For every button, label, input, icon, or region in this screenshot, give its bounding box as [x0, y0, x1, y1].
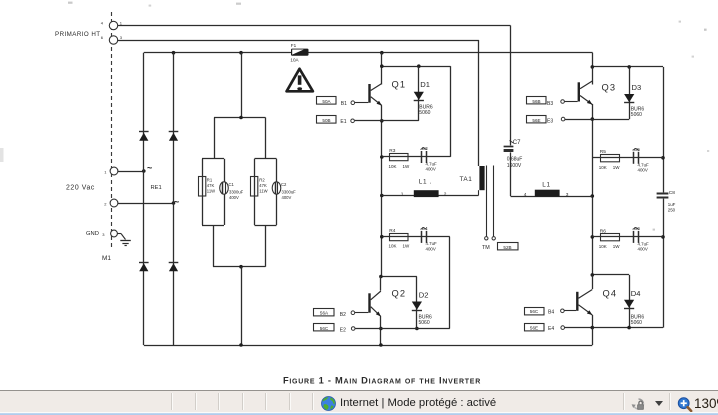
- svg-text:6: 6: [101, 35, 104, 40]
- svg-text:Q4: Q4: [603, 289, 618, 299]
- svg-text:400V: 400V: [426, 167, 436, 172]
- svg-text:400V: 400V: [638, 168, 648, 173]
- svg-text:1: 1: [104, 170, 107, 175]
- svg-text:3300uF: 3300uF: [282, 190, 297, 195]
- svg-text:50A: 50A: [322, 99, 331, 104]
- svg-text:56C: 56C: [530, 309, 539, 314]
- svg-text:E1: E1: [340, 119, 346, 125]
- svg-text:PRIMARIO HT: PRIMARIO HT: [55, 31, 101, 38]
- svg-text:R3: R3: [389, 148, 395, 154]
- svg-text:D4: D4: [631, 289, 641, 298]
- svg-text:L1 .: L1 .: [419, 179, 432, 186]
- svg-text:C3: C3: [422, 146, 428, 152]
- svg-text:4.7uF: 4.7uF: [426, 241, 438, 246]
- svg-text:Q3: Q3: [602, 83, 617, 93]
- svg-text:400V: 400V: [426, 247, 436, 252]
- svg-text:R1: R1: [207, 178, 213, 183]
- svg-text:52B: 52B: [503, 245, 511, 250]
- svg-text:3300uF: 3300uF: [229, 190, 244, 195]
- svg-text:E2: E2: [340, 328, 346, 334]
- svg-text:10A: 10A: [290, 57, 299, 62]
- svg-text:1W: 1W: [613, 244, 621, 249]
- svg-text:C2: C2: [281, 182, 287, 187]
- svg-text:1: 1: [401, 191, 404, 197]
- svg-text:10K: 10K: [389, 244, 397, 249]
- svg-text:C7: C7: [513, 140, 521, 146]
- svg-text:4.7uF: 4.7uF: [426, 161, 438, 166]
- svg-text:400V: 400V: [282, 195, 292, 200]
- svg-text:5060: 5060: [631, 112, 642, 118]
- svg-text:C5: C5: [634, 147, 640, 153]
- svg-text:56C: 56C: [320, 326, 329, 331]
- svg-text:47K: 47K: [207, 183, 215, 188]
- svg-text:~: ~: [147, 163, 152, 173]
- svg-text:56E: 56E: [530, 326, 538, 331]
- svg-text:1: 1: [120, 21, 123, 26]
- svg-text:Figure 1 - Main Diagram of the: Figure 1 - Main Diagram of the Inverter: [283, 376, 481, 386]
- svg-text:10K: 10K: [599, 165, 607, 170]
- svg-text:3: 3: [120, 35, 123, 40]
- svg-text:56B: 56B: [532, 99, 540, 104]
- svg-text:1W: 1W: [403, 244, 411, 249]
- svg-text:TM: TM: [482, 245, 490, 251]
- svg-text:10K: 10K: [389, 164, 397, 169]
- svg-text:R4: R4: [389, 228, 395, 234]
- svg-text:GND: GND: [86, 231, 99, 237]
- svg-text:R6: R6: [600, 228, 606, 234]
- svg-text:D1: D1: [420, 80, 430, 89]
- svg-text:E4: E4: [548, 326, 554, 332]
- svg-text:M1: M1: [102, 255, 111, 262]
- svg-text:Q1: Q1: [392, 80, 407, 90]
- svg-text:4: 4: [524, 192, 527, 198]
- svg-text:B4: B4: [548, 310, 554, 316]
- svg-text:Q2: Q2: [392, 289, 407, 299]
- svg-text:400V: 400V: [638, 247, 648, 252]
- svg-text:R2: R2: [259, 178, 265, 183]
- svg-text:1W: 1W: [613, 165, 621, 170]
- svg-text:C6: C6: [634, 226, 640, 232]
- svg-text:1600V: 1600V: [507, 163, 522, 169]
- svg-text:RE1: RE1: [151, 185, 162, 191]
- svg-text:5060: 5060: [631, 320, 642, 326]
- svg-text:56E: 56E: [532, 118, 540, 123]
- svg-text:4.7uF: 4.7uF: [638, 241, 650, 246]
- svg-text:3: 3: [102, 232, 105, 237]
- svg-text:50B: 50B: [322, 118, 330, 123]
- svg-text:220 Vac: 220 Vac: [66, 185, 95, 192]
- svg-text:3: 3: [566, 192, 569, 198]
- svg-text:B2: B2: [340, 312, 346, 318]
- svg-text:C8: C8: [669, 190, 675, 196]
- svg-text:47K: 47K: [259, 183, 267, 188]
- svg-text:D2: D2: [419, 291, 429, 300]
- svg-text:L1: L1: [542, 182, 551, 189]
- svg-text:56A: 56A: [320, 310, 329, 315]
- svg-text:250: 250: [668, 207, 676, 212]
- svg-text:C1: C1: [229, 182, 235, 187]
- svg-text:~: ~: [174, 197, 179, 207]
- svg-text:2: 2: [444, 191, 447, 197]
- svg-text:11W: 11W: [207, 189, 215, 194]
- svg-text:4: 4: [101, 21, 104, 26]
- svg-text:D3: D3: [632, 83, 642, 92]
- svg-text:400V: 400V: [229, 195, 239, 200]
- svg-text:B1: B1: [341, 101, 347, 107]
- svg-text:1W: 1W: [403, 164, 411, 169]
- svg-text:11W: 11W: [259, 189, 267, 194]
- svg-text:5060: 5060: [419, 110, 430, 116]
- svg-text:E3: E3: [547, 119, 553, 125]
- svg-text:TA1: TA1: [460, 176, 473, 183]
- svg-text:4.7uF: 4.7uF: [638, 162, 650, 167]
- svg-text:B3: B3: [547, 101, 553, 107]
- svg-text:5060: 5060: [419, 320, 430, 326]
- svg-text:C4: C4: [422, 226, 428, 232]
- svg-text:10K: 10K: [599, 244, 607, 249]
- svg-text:F1: F1: [291, 43, 297, 48]
- svg-text:0.68uF: 0.68uF: [507, 156, 523, 162]
- svg-text:2: 2: [104, 202, 107, 207]
- svg-text:1uF: 1uF: [668, 202, 676, 207]
- svg-text:R5: R5: [600, 149, 606, 155]
